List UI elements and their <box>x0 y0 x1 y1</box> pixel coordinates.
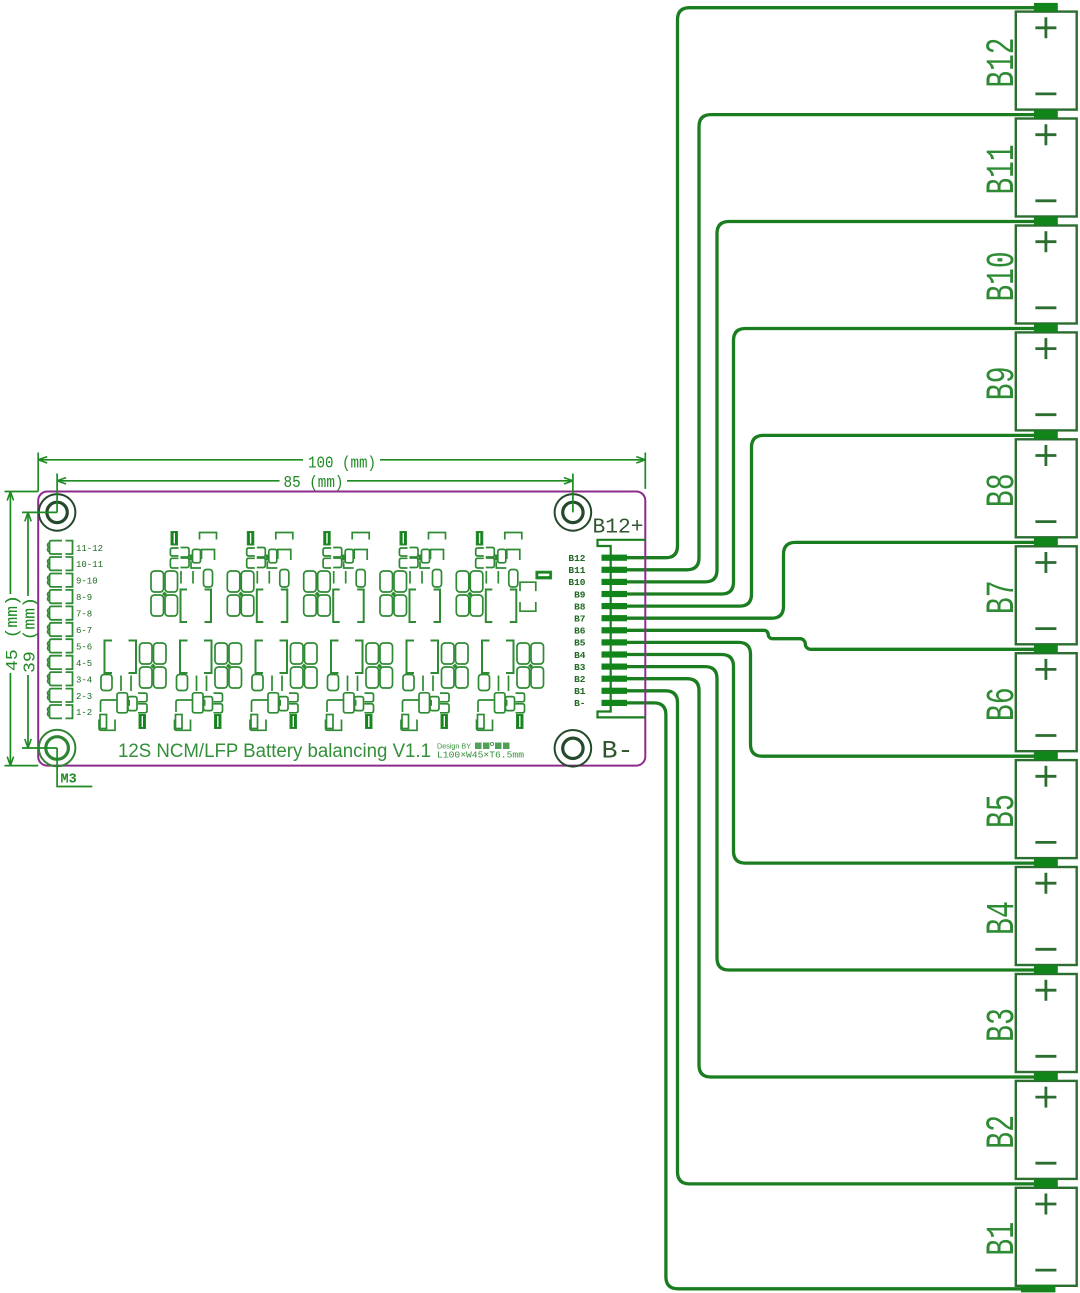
svg-text:B1: B1 <box>574 686 586 697</box>
svg-text:B12+: B12+ <box>593 517 644 540</box>
svg-text:B8: B8 <box>981 473 1026 507</box>
svg-text:B10: B10 <box>981 252 1026 302</box>
svg-text:B11: B11 <box>981 145 1026 195</box>
svg-text:B7: B7 <box>574 614 586 625</box>
svg-text:B3: B3 <box>981 1008 1026 1042</box>
svg-text:B5: B5 <box>981 794 1026 828</box>
svg-text:B1: B1 <box>981 1222 1026 1256</box>
svg-text:10-11: 10-11 <box>76 560 103 570</box>
svg-text:B9: B9 <box>981 366 1026 400</box>
svg-text:1-2: 1-2 <box>76 708 92 718</box>
svg-text:3-4: 3-4 <box>76 675 92 685</box>
svg-text:5-6: 5-6 <box>76 642 92 652</box>
svg-text:4-5: 4-5 <box>76 659 92 669</box>
svg-text:B10: B10 <box>568 577 585 588</box>
svg-text:L100×W45×T6.5mm: L100×W45×T6.5mm <box>437 750 524 761</box>
svg-text:B5: B5 <box>574 638 586 649</box>
svg-text:6-7: 6-7 <box>76 626 92 636</box>
svg-text:M3: M3 <box>61 773 77 788</box>
svg-text:12S NCM/LFP Battery balancing: 12S NCM/LFP Battery balancing V1.1 <box>118 741 431 762</box>
svg-text:B8: B8 <box>574 601 586 612</box>
svg-text:B-: B- <box>574 698 585 709</box>
svg-text:B4: B4 <box>981 901 1026 935</box>
svg-text:7-8: 7-8 <box>76 610 92 620</box>
svg-text:100 (mm): 100 (mm) <box>308 455 376 474</box>
svg-text:B2: B2 <box>574 674 586 685</box>
svg-text:85 (mm): 85 (mm) <box>284 474 344 493</box>
svg-text:B-: B- <box>602 737 634 766</box>
svg-text:B11: B11 <box>568 565 585 576</box>
svg-text:B4: B4 <box>574 650 586 661</box>
svg-text:11-12: 11-12 <box>76 544 103 554</box>
svg-text:9-10: 9-10 <box>76 577 98 587</box>
svg-text:B12: B12 <box>568 553 585 564</box>
svg-text:B6: B6 <box>981 687 1026 721</box>
svg-text:B2: B2 <box>981 1115 1026 1149</box>
svg-text:B6: B6 <box>574 626 586 637</box>
svg-text:45 (mm): 45 (mm) <box>4 595 23 671</box>
svg-text:2-3: 2-3 <box>76 692 92 702</box>
svg-text:B3: B3 <box>574 662 586 673</box>
svg-text:B12: B12 <box>981 38 1026 88</box>
svg-text:8-9: 8-9 <box>76 593 92 603</box>
svg-text:39 (mm): 39 (mm) <box>22 597 41 673</box>
svg-text:B7: B7 <box>981 580 1026 614</box>
svg-text:B9: B9 <box>574 589 586 600</box>
